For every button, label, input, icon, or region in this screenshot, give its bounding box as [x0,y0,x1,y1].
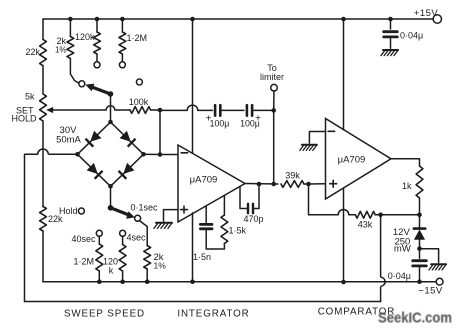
watermark SeekIC.com [378,310,452,327]
wire to first 100u cap [160,109,187,111]
node inverting feed [158,152,163,157]
resistor 100k [129,97,151,113]
svg-text:100μ: 100μ [210,119,230,129]
wire 40sec contact down [98,236,100,244]
svg-text:1·5k: 1·5k [229,226,247,236]
node rail-1.2M [120,17,125,22]
wire 4sec contact down [122,236,124,244]
wire 43k node to zener node [381,214,420,216]
node 120k rail [120,279,125,284]
wire hop to cap plate [198,109,213,111]
svg-text:100μ: 100μ [240,119,260,129]
capacitor 0.04u (lower) [388,249,427,282]
wire U2 V- to -15V rail [343,188,345,282]
node rail-integrator V+ [190,17,195,22]
label SWEEP SPEED [64,309,145,320]
node zener top [417,213,422,218]
terminal +15V [414,8,442,23]
wire zener anode to ground [420,249,439,263]
wire hop to 43k [349,214,356,216]
switch S2 speed wiper [108,205,135,219]
svg-text:μA709: μA709 [190,175,218,186]
svg-text:1·5n: 1·5n [193,252,211,262]
resistor 22k (top left) [25,39,46,65]
node bridge left [75,152,80,157]
wire U1 V- to -15V rail [192,213,194,282]
op-amp U2 uA709 comparator [326,119,392,200]
switch contact 1.2M position [119,62,125,68]
svg-text:470p: 470p [243,214,263,224]
ground zener [429,264,446,270]
node bridge top [108,120,113,125]
svg-text:+15V: +15V [414,8,439,19]
wire U2 - input to ground [309,132,325,144]
wire 22k to 5k [42,66,44,94]
svg-text:50mA: 50mA [56,135,81,146]
switch contact 0.1sec [130,203,158,222]
capacitor C1 100u [206,105,230,128]
switch contact 2k position [79,81,85,87]
svg-text:4sec: 4sec [127,233,147,243]
svg-text:1%: 1% [154,261,167,271]
resistor 120k (timing) [103,245,126,282]
svg-text:μA709: μA709 [338,155,366,166]
resistor 22k (lower left) [40,207,63,232]
svg-text:1·2M: 1·2M [127,33,148,43]
switch contact Hold [59,206,84,216]
svg-text:0·04μ: 0·04μ [400,31,423,41]
wire 5k to lower 22k [42,121,44,207]
capacitor 0.04u (upper) [384,19,424,48]
node output-feedback [271,182,276,187]
label INTEGRATOR [177,309,249,320]
svg-text:limiter: limiter [260,72,284,82]
svg-text:120k: 120k [75,32,95,42]
switch contact spare [136,79,142,85]
node 39k / comparator + [306,182,311,187]
node limiter tap [271,108,276,113]
svg-text:1k: 1k [402,181,412,191]
wire zener node down [419,215,421,229]
wire -15V rail [43,281,436,283]
wire feedback loop left [25,149,78,301]
node rail-120k [95,17,100,22]
capacitor 1.5n compensation [193,206,224,262]
resistor 1.2M (timing) [73,244,102,282]
resistor 5k SET HOLD pot [12,92,47,124]
node zener anode [417,246,422,251]
switch contact 40sec [71,230,102,244]
svg-text:5k: 5k [25,92,35,102]
svg-text:1%: 1% [55,46,67,55]
diode D2 (top-right arm) [120,131,136,147]
node U2 V- rail [341,280,346,285]
label COMPARATOR [318,307,396,318]
diode D1 (top-left arm) [86,131,102,147]
capacitor C2 100u [240,105,261,128]
resistor 39k [281,171,309,188]
op-amp U1 uA709 integrator [178,145,245,222]
wire lower 22k to -15V rail [42,231,44,282]
svg-text:0·04μ: 0·04μ [388,271,411,281]
resistor 120k (sweep) [75,19,100,62]
node cap to -15V rail [417,279,422,284]
node rail-2k [68,17,73,22]
terminal -15V [418,278,443,296]
svg-text:0·1sec: 0·1sec [130,203,158,213]
wire U2 output [391,159,420,166]
wire U1 output [245,183,278,186]
wire 100k to inverting node [151,109,160,111]
switch contact 4sec [120,230,146,242]
wire feedback loop right riser [381,215,386,302]
svg-text:INTEGRATOR: INTEGRATOR [177,309,249,320]
svg-text:39k: 39k [285,171,300,181]
node output-470p [257,182,262,187]
wire hop over U2 V- line [338,210,349,215]
ground upper bypass [381,50,398,56]
svg-text:−15V: −15V [418,286,443,297]
svg-text:100k: 100k [129,97,149,107]
wire 0.1sec contact to 2k [140,221,147,246]
resistor 1k [402,166,423,215]
diode D3 (left-bottom arm) [87,163,103,179]
wire between 100u caps [220,109,244,111]
svg-text:Hold: Hold [59,206,78,216]
wire U2 V+ from rail [343,19,345,130]
resistor 1.2M (sweep) [119,19,147,62]
capacitor 470p [240,184,264,224]
node rail-comparator V+ [341,17,346,22]
svg-text:40sec: 40sec [71,234,96,244]
resistor 43k [355,211,380,229]
node bridge bottom [108,184,113,208]
svg-text:22k: 22k [25,47,40,57]
wire left chain top [42,19,44,39]
switch S1 sweep-range wiper [85,84,113,97]
resistor 1.5k compensation [221,195,247,243]
node bridge right [141,152,160,157]
switch contact 120k position [94,62,100,68]
wire pot wiper [46,107,106,113]
node 2k rail [145,279,150,284]
label bridge 30V 50mA [56,125,81,146]
wire S1 pole to bridge top [110,94,112,122]
wire 2k to contact [70,58,79,83]
svg-text:k: k [109,266,114,276]
ground U2 - input [300,145,317,151]
svg-text:HOLD: HOLD [12,114,38,124]
svg-text:2k: 2k [56,36,66,46]
diode D4 (right-bottom arm) [119,163,135,179]
node integrator inverting top [158,108,163,113]
wire cap to limiter node [252,109,274,111]
resistor 2k 1% (sweep) [55,19,74,58]
wire hop over S1 stem [106,106,130,110]
svg-text:1·2M: 1·2M [73,257,94,267]
node U1 V- rail [190,279,195,284]
wire feedback loop bottom [25,301,381,303]
svg-text:SWEEP SPEED: SWEEP SPEED [64,309,145,320]
ground U1 + input [154,223,172,229]
svg-text:mW: mW [394,244,411,255]
node rail-bypass cap [388,17,393,22]
node 1.2M rail [97,279,102,284]
wire bridge right to inverting input [160,110,178,155]
terminal To limiter [260,63,284,110]
wire + input branch down [309,184,339,215]
wire +15V supply rail [43,18,434,20]
wire U1 V+ from rail [192,19,194,153]
wire 39k node to + input [309,183,326,185]
wire bridge frame [78,122,144,186]
svg-text:43k: 43k [358,220,373,230]
node 43k / feedback [378,213,383,218]
svg-text:SeekIC.com: SeekIC.com [378,310,452,327]
wire limiter node to output [273,110,275,184]
wire hop over V+ line [187,105,198,110]
resistor 2k 1% (timing) [144,246,166,282]
wire U1 + input to ground [164,210,179,221]
zener diode 12V 250mW [393,227,425,255]
